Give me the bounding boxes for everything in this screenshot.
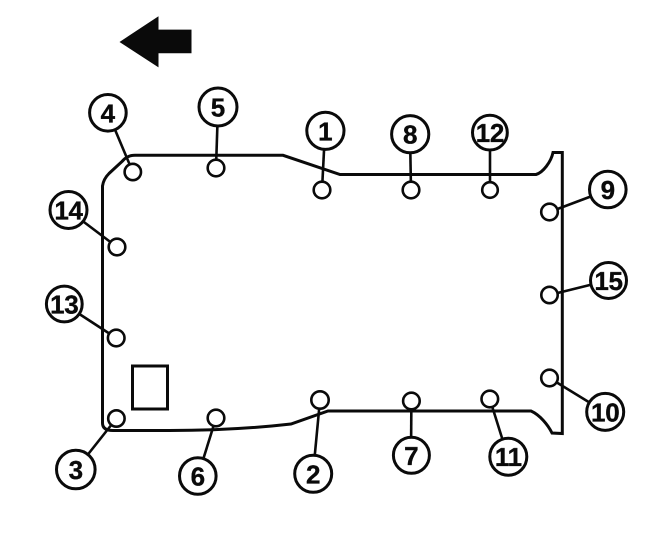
bolt hole 1	[314, 182, 331, 199]
bolt hole 2	[311, 391, 328, 408]
direction arrow (front)	[120, 16, 192, 67]
leader line 11	[490, 399, 508, 457]
callout circle 5	[199, 88, 237, 126]
bolt hole 15	[541, 287, 557, 303]
bolt hole 12	[482, 182, 498, 198]
svg-text:4: 4	[101, 98, 116, 128]
callout circle 13	[46, 286, 82, 322]
leader line 12	[489, 133, 492, 190]
svg-text:5: 5	[211, 93, 225, 123]
callout circle 4	[90, 95, 127, 132]
callout circle 9	[590, 171, 627, 208]
bolt hole 8	[403, 182, 420, 199]
bolt hole 14	[109, 239, 126, 256]
callout circle 8	[392, 116, 429, 153]
svg-text:11: 11	[495, 442, 522, 472]
leader line 13	[64, 304, 116, 338]
leader line 7	[410, 401, 413, 455]
callout circle 12	[473, 115, 508, 150]
callout circle 11	[490, 438, 527, 475]
leader line 3	[76, 419, 116, 470]
leader line 14	[68, 210, 117, 247]
callout circle 3	[57, 450, 96, 489]
callout circle 6	[180, 458, 217, 495]
leader line 8	[410, 134, 411, 190]
svg-text:9: 9	[601, 175, 615, 205]
svg-text:7: 7	[404, 441, 418, 471]
leader line 5	[216, 107, 218, 168]
bolt hole 7	[403, 393, 420, 410]
svg-text:1: 1	[318, 116, 332, 146]
svg-text:3: 3	[69, 455, 83, 485]
bolt hole 4	[125, 164, 141, 180]
leader line 2	[313, 400, 320, 474]
bolt hole 3	[108, 410, 124, 426]
leader line 1	[322, 131, 325, 190]
svg-text:14: 14	[54, 196, 83, 226]
callout circle 15	[591, 263, 627, 299]
leader line 6	[198, 418, 216, 476]
svg-text:2: 2	[306, 459, 320, 489]
svg-text:10: 10	[591, 397, 619, 427]
svg-text:6: 6	[191, 462, 205, 492]
callout circle 7	[393, 437, 429, 473]
bolt hole 10	[541, 370, 558, 387]
svg-text:8: 8	[403, 120, 417, 150]
bolt hole 13	[108, 330, 125, 347]
bolt hole 11	[482, 391, 499, 408]
leader line 10	[550, 378, 606, 412]
callout circle 1	[307, 112, 344, 149]
svg-text:15: 15	[594, 266, 622, 296]
bolt hole 6	[208, 410, 225, 427]
svg-text:13: 13	[50, 290, 78, 320]
callout circle 2	[295, 455, 332, 492]
svg-text:12: 12	[476, 118, 504, 148]
callout circle 14	[50, 192, 87, 229]
leader line 9	[550, 190, 609, 212]
leader line 15	[550, 281, 609, 296]
oil pan outline	[103, 153, 563, 434]
bolt hole 9	[541, 204, 558, 221]
bolt hole 5	[208, 160, 225, 177]
callout circle 10	[587, 393, 624, 430]
leader line 4	[108, 113, 133, 172]
drain plug rectangle	[133, 366, 168, 409]
